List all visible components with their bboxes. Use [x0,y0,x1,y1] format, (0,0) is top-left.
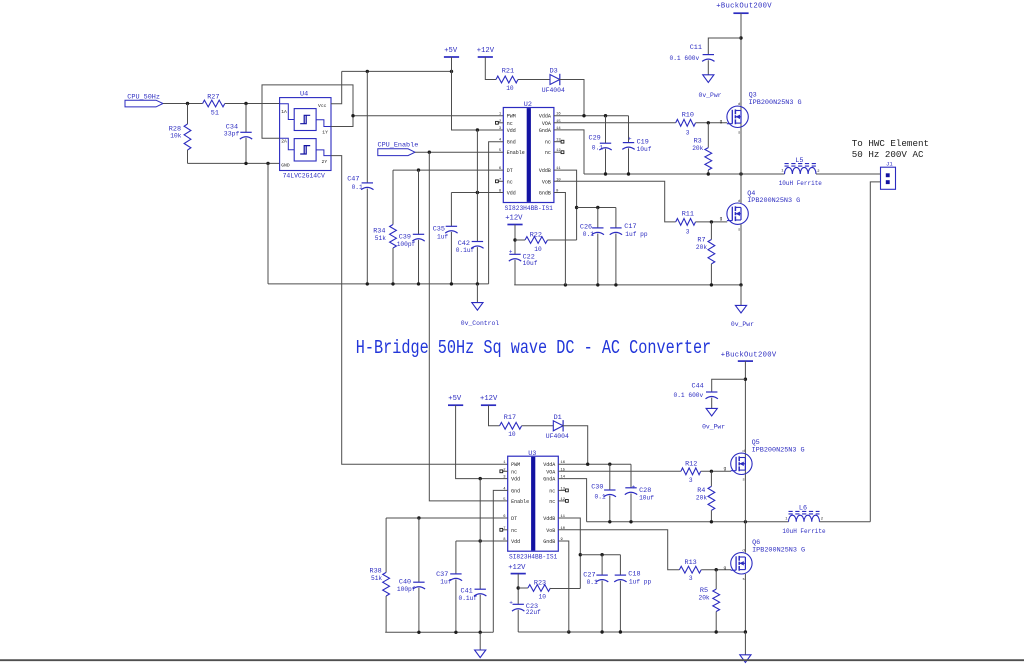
svg-text:Enable: Enable [511,499,529,505]
svg-text:PWM: PWM [507,114,516,120]
junction +5V stem [450,70,453,73]
svg-text:R21: R21 [502,67,514,75]
ground symbol 0v_Pwr (C44) [702,398,725,431]
junction C41 mid [479,539,482,542]
svg-text:GndA: GndA [543,477,555,483]
schmitt ic U4 74LVC2G14CV [280,91,331,180]
wire U3 Vdd pin8 line [456,540,508,542]
svg-text:3: 3 [686,228,690,235]
wire VddB decoupling line [577,207,616,209]
svg-text:20k: 20k [696,494,707,501]
svg-text:nc: nc [549,488,555,494]
wire U2 Gnd pin4 to rail [489,142,504,284]
svg-text:nc: nc [507,179,513,185]
junction R5 top [715,568,718,571]
junction prail R7 [710,283,713,286]
svg-text:R12: R12 [685,460,697,468]
wire U4 Vcc to +5V line [331,71,452,103]
wire +12V to R17 [489,405,500,426]
svg-text:CPU_Enable: CPU_Enable [378,142,419,150]
wire +5V to U3 Vdd pin3 [456,405,508,478]
junction C34 bottom [244,162,247,165]
junction brail C40 [417,631,420,634]
ground symbol 0v_Control [461,284,500,327]
resistor R7 [696,222,715,285]
title text [356,338,711,359]
wire power ground rail (top) [514,284,741,286]
svg-text:nc: nc [507,121,513,127]
svg-text:To HWC Element: To HWC Element [852,138,929,149]
svg-text:100pf: 100pf [397,586,416,593]
svg-text:J1: J1 [886,161,893,168]
svg-text:0.1uf: 0.1uf [456,247,475,254]
junction rail C39 [417,282,420,285]
power symbol +BuckOut200V (bottom) [721,351,777,361]
svg-text:VddA: VddA [543,462,555,468]
svg-text:nc: nc [549,499,555,505]
junction C42 mid [476,191,479,194]
svg-text:0v_Pwr: 0v_Pwr [702,423,725,430]
svg-text:UF4004: UF4004 [542,87,565,94]
svg-text:50 Hz 200V AC: 50 Hz 200V AC [852,149,924,160]
svg-text:10k: 10k [170,133,181,140]
junction C44 tap [744,378,747,381]
transistor Q5 IPB200N25N3 [723,439,804,483]
svg-text:1uf: 1uf [440,579,451,586]
junction rail R34 [391,282,394,285]
junction prail Q4 source [739,283,742,286]
power symbol +12V (R22 feed) [505,215,523,225]
resistor R38 [370,518,390,632]
capacitor C35 [433,193,458,284]
capacitor C19 (polarized) [622,116,651,174]
ground symbol 0v_Pwr (bottom rail) [740,632,751,662]
junction prailB C27 [600,630,603,633]
svg-text:C47: C47 [347,176,359,184]
svg-text:CPU_50Hz: CPU_50Hz [127,93,160,101]
svg-text:Vcc: Vcc [318,103,327,109]
wire U2 Vdd pin8 line [451,192,503,194]
svg-text:10: 10 [534,246,542,253]
wire D3 cathode to VddA line [559,80,584,116]
capacitor C17 [610,208,648,285]
resistor R10 [676,112,696,137]
svg-text:1uf pp: 1uf pp [629,579,652,586]
svg-text:Gnd: Gnd [511,488,520,494]
svg-text:0v_Pwr: 0v_Pwr [699,92,722,99]
wire R17 to D1 [522,425,554,427]
svg-text:+12V: +12V [477,47,495,55]
wire U3 VOA pin15 to R12 [558,470,681,472]
capacitor C34 [224,104,252,164]
resistor R4 [696,471,715,522]
gate driver U3 SI823H4BB-IS1 [500,450,568,561]
inductor L6 [782,505,826,535]
svg-text:g: g [720,120,723,125]
svg-text:20k: 20k [696,244,707,251]
junction brail C30 [608,520,611,523]
wire Q6 source to power rail B [744,574,746,632]
svg-text:nc: nc [545,140,551,146]
wire CPU_50Hz to R27 [163,103,203,105]
svg-text:D1: D1 [554,414,562,422]
svg-text:R17: R17 [504,414,516,422]
svg-text:VOA: VOA [542,121,551,127]
svg-text:nc: nc [511,469,517,475]
junction R23 tap [517,586,520,589]
junction brail R4 [710,520,713,523]
svg-text:L6: L6 [799,505,807,513]
power symbol +5V (bottom) [448,395,463,405]
junction C41 top [479,477,482,480]
capacitor C11 [670,38,742,62]
svg-text:R11: R11 [682,211,694,219]
wire +12V to R21 [485,57,496,80]
svg-text:R23: R23 [534,579,546,587]
junction C40 top [417,516,420,519]
svg-text:DT: DT [507,168,513,174]
junction prailB Q6 source [744,630,747,633]
resistor R27 [203,94,225,118]
capacitor C28 (polarized) [625,464,654,522]
wire VddB decoupling line B [580,554,620,556]
resistor R5 [699,570,720,632]
svg-text:R27: R27 [207,94,219,102]
wire U2 GndB pin9 to power rail [554,193,566,285]
input port CPU_50Hz [125,93,163,107]
svg-text:0.1: 0.1 [587,579,598,586]
junction C34 top [244,102,247,105]
capacitor C47 [347,71,373,284]
svg-text:IPB200N25N3 G: IPB200N25N3 G [747,197,800,205]
wire Q4 drain to phase rail A [740,174,742,203]
wire J1 pin2 riser to lower bridge output [870,182,880,522]
junction brail C28 [629,520,632,523]
svg-text:51k: 51k [371,575,382,582]
svg-text:+5V: +5V [448,395,462,403]
svg-text:GND: GND [281,162,290,168]
junction prail C26 [596,283,599,286]
junction brail Q5 source [744,520,747,523]
wire phase rail B [587,521,789,523]
wire control ground rail (bottom) [385,631,492,633]
svg-text:10uf: 10uf [637,146,652,153]
svg-text:IPB200N25N3 G: IPB200N25N3 G [749,99,802,107]
wire +5V stem to U2 Vdd pin3 [452,57,504,130]
svg-text:GndB: GndB [539,191,551,197]
svg-text:3: 3 [686,129,690,136]
svg-text:C44: C44 [692,383,704,391]
wire U3 GndB pin9 to power rail B [558,541,569,632]
svg-text:nc: nc [511,528,517,534]
junction D3 on VddA [582,114,585,117]
junction prail C17 [614,283,617,286]
svg-text:C29: C29 [589,135,601,143]
junction C47 top [366,70,369,73]
diode D3 UF4004 [542,68,565,94]
wire +12V to C22/R22 node [514,225,516,255]
svg-text:0.1 600v: 0.1 600v [670,55,700,62]
wire U4 1Y to U2 PWM and loop to 2A [262,85,503,138]
svg-text:Gnd: Gnd [507,140,516,146]
svg-text:2Y: 2Y [322,159,328,165]
capacitor C22 (polarized) [509,248,538,285]
svg-text:IPB200N25N3 G: IPB200N25N3 G [752,447,805,455]
svg-text:Enable: Enable [507,150,525,156]
junction D1 on VddA [586,463,589,466]
power symbol +5V (top) [444,47,459,57]
junction brail C37 [454,631,457,634]
ground symbol 0v_Pwr (top rail) [731,285,754,328]
svg-text:C17: C17 [624,223,636,231]
wire CPU_Enable to U2 Enable pin5 [415,151,503,153]
junction R22 tap [513,238,516,241]
svg-text:Vdd: Vdd [511,477,520,483]
wire U2 VoB pin10 to R11 [554,181,676,222]
junction R28 tap [186,102,189,105]
svg-text:0.1: 0.1 [595,493,606,500]
wire R11 to Q4 gate [696,221,728,223]
capacitor C42 [456,130,484,284]
wire +12V to C23/R23 node [517,574,519,605]
svg-text:VddB: VddB [539,168,551,174]
wire U4 2Y down to U3 PWM [331,156,508,465]
wire U2 VddA pin16 line [554,115,629,117]
capacitor C26 [580,208,604,285]
svg-text:100pf: 100pf [397,241,416,248]
junction rail Q3 source [739,172,742,175]
svg-text:PWM: PWM [511,462,520,468]
junction U4 gnd drop [266,162,269,165]
svg-text:10uH Ferrite: 10uH Ferrite [779,180,823,187]
sheet border bottom line [0,659,1024,661]
svg-text:0v_Pwr: 0v_Pwr [731,321,754,328]
svg-text:0.1: 0.1 [583,231,594,238]
svg-text:+: + [632,484,636,491]
wire Q4 source to power rail [740,224,742,285]
svg-text:g: g [723,566,726,571]
ground symbol 0v_Pwr (C11) [699,60,722,99]
svg-text:+: + [628,136,632,143]
svg-text:R10: R10 [682,112,694,120]
junction rail C29 [604,172,607,175]
resistor R12 [681,460,701,484]
svg-text:U3: U3 [528,450,536,458]
svg-text:Vdd: Vdd [507,191,516,197]
svg-text:+BuckOut200V: +BuckOut200V [716,3,772,11]
svg-text:R22: R22 [530,231,542,239]
capacitor C29 [589,116,612,174]
junction rail C47 [366,282,369,285]
junction enable drop [428,151,431,154]
svg-text:10: 10 [539,594,547,601]
capacitor C18 [614,555,651,632]
junction rail R3 [707,172,710,175]
svg-text:U4: U4 [300,91,308,99]
wire U3 Gnd pin4 to rail [492,490,508,632]
junction C42 line on Vdd pin3 wire [476,128,479,131]
wire U4 ground drop to control rail [267,163,269,284]
svg-text:VddA: VddA [539,114,551,120]
svg-text:0.1: 0.1 [592,144,603,151]
connector J1 [881,161,896,190]
svg-text:0.1 600v: 0.1 600v [674,392,704,399]
wire U2 DT pin6 line [393,169,503,171]
svg-text:22uf: 22uf [526,609,541,616]
svg-text:R13: R13 [685,559,697,567]
gate driver U2 SI823H4BB-IS1 [496,101,564,212]
svg-text:H-Bridge 50Hz Sq wave DC - AC: H-Bridge 50Hz Sq wave DC - AC Converter [356,338,711,359]
ground symbol control (bottom) [475,632,486,657]
capacitor C40 [397,518,425,632]
svg-text:10: 10 [508,431,516,438]
junction R3 top [707,121,710,124]
svg-text:20k: 20k [692,145,703,152]
resistor R3 [692,123,712,174]
svg-text:10uH Ferrite: 10uH Ferrite [782,528,826,535]
svg-text:51: 51 [211,110,219,118]
svg-text:3: 3 [689,575,693,582]
resistor R22 [515,231,577,253]
power symbol +12V (top) [477,47,495,57]
svg-text:+: + [509,600,513,607]
wire +BuckOut200V bus to Q3 drain [740,13,742,174]
wire enable drop to U3 Enable pin5 [429,152,507,501]
svg-text:1uf: 1uf [437,233,448,240]
wire L6 to J1 riser [820,521,871,523]
wire L5 to J1 pin1 [816,173,881,175]
wire U3 GndA pin14 to phase rail B [558,479,586,522]
transistor Q3 IPB200N25N3 [720,92,802,136]
resistor R13 [679,559,701,582]
svg-text:C18: C18 [628,571,640,579]
resistor R21 [496,67,518,92]
wire power ground rail (bottom) [518,631,745,633]
svg-text:DT: DT [511,516,517,522]
svg-text:nc: nc [545,150,551,156]
junction prail GndB [564,283,567,286]
power symbol +12V (R23 feed) [508,564,526,574]
resistor R28 [169,104,191,164]
svg-text:IPB200N25N3 G: IPB200N25N3 G [752,547,805,555]
junction C30 top [608,463,611,466]
svg-text:+: + [509,248,513,255]
svg-text:+12V: +12V [480,395,498,403]
capacitor C30 [591,464,616,522]
svg-text:D3: D3 [550,68,558,76]
junction C29 top [604,114,607,117]
svg-text:GndA: GndA [539,128,551,134]
svg-text:C30: C30 [591,483,603,491]
wire R21 to D3 [518,79,550,81]
wire R13 to Q6 gate [701,569,731,571]
label To HWC Element [852,138,929,160]
svg-text:L5: L5 [795,157,803,165]
svg-text:SI823H4BB-IS1: SI823H4BB-IS1 [509,554,558,561]
svg-text:Vdd: Vdd [507,128,516,134]
junction prailB GndB [567,630,570,633]
wire U3 VddB pin11 to R23 node [558,518,580,589]
wire +BuckOut200V bus to Q5 drain [744,361,746,522]
junction VddB cap line B [579,553,582,556]
resistor R23 [518,579,580,600]
wire R12 to Q5 gate [701,470,731,472]
svg-text:10uf: 10uf [639,494,654,501]
svg-text:+12V: +12V [505,215,523,223]
junction C27 top [600,553,603,556]
svg-text:20k: 20k [699,595,710,602]
svg-text:UF4004: UF4004 [546,433,569,440]
junction rail C42 [476,282,479,285]
capacitor C39 [397,170,425,284]
junction rail C35 [450,282,453,285]
svg-text:10uf: 10uf [523,260,538,267]
wire U2 VOA pin15 to R10 [554,122,676,124]
wire U2 GndA pin14 to phase rail A [554,130,584,174]
svg-text:2A: 2A [281,138,287,144]
svg-text:C11: C11 [690,44,702,52]
svg-text:VddB: VddB [543,516,555,522]
capacitor C41 [459,479,487,633]
wire U2 VddB pin11 to R22 node [554,170,577,240]
junction prailB C18 [619,630,622,633]
resistor R17 [500,414,522,438]
capacitor C44 [674,379,746,399]
junction C39 top [417,168,420,171]
svg-text:GndB: GndB [543,539,555,545]
power symbol +BuckOut200V (top) [716,3,772,14]
svg-text:33pf: 33pf [224,131,240,138]
capacitor C23 (polarized) [509,600,541,632]
wire control ground rail (top) [268,283,489,285]
svg-text:0v_Control: 0v_Control [461,320,500,327]
svg-text:0.1: 0.1 [352,184,363,191]
svg-text:SI823H4BB-IS1: SI823H4BB-IS1 [505,205,554,212]
capacitor C27 [583,555,608,632]
wire R10 to Q3 gate [696,122,728,124]
svg-text:g: g [723,467,726,472]
svg-text:51k: 51k [375,235,386,242]
input port CPU_Enable [378,142,419,156]
svg-text:U2: U2 [524,101,532,109]
inductor L5 [779,157,823,187]
junction 1Y/PWM node [351,114,354,117]
junction rail C19 [627,172,630,175]
junction C11 tap [739,36,742,39]
resistor R11 [676,211,696,236]
svg-text:1A: 1A [281,109,287,115]
resistor R34 [373,170,396,284]
svg-text:3: 3 [689,477,693,484]
junction brail C41 [479,631,482,634]
wire local ground line under R28/C34/U4 [188,162,280,164]
svg-text:VOA: VOA [546,469,555,475]
diode D1 UF4004 [546,414,569,440]
capacitor C37 [436,541,462,632]
svg-text:+5V: +5V [444,47,458,55]
svg-text:1uf pp: 1uf pp [625,231,648,238]
transistor Q4 IPB200N25N3 [720,190,801,233]
svg-text:+BuckOut200V: +BuckOut200V [721,351,777,359]
junction prailB R5 [715,630,718,633]
wire D1 cathode to VddA line [562,426,587,464]
svg-text:+12V: +12V [508,564,526,572]
wire U3 VoB pin10 to R13 [558,530,679,570]
junction R4 top [710,470,713,473]
power symbol +12V (bottom) [480,395,498,405]
svg-text:1Y: 1Y [322,129,328,135]
wire R27 to U4 1A [225,103,280,105]
